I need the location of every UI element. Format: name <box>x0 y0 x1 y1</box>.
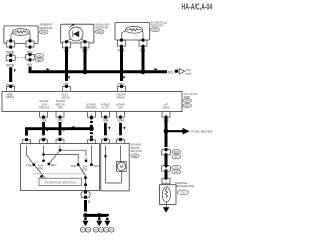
svg-text:M52: M52 <box>97 30 103 34</box>
svg-text:OR/B: OR/B <box>6 63 15 67</box>
svg-text:SENSOR: SENSOR <box>95 26 109 30</box>
svg-text:M33: M33 <box>174 150 180 154</box>
svg-text:M49: M49 <box>185 99 191 103</box>
svg-text:REC: REC <box>93 164 99 168</box>
svg-text:M80: M80 <box>152 28 158 32</box>
svg-text:SENS: SENS <box>117 95 125 99</box>
svg-text:TRANSMITTER: TRANSMITTER <box>175 184 195 188</box>
svg-text:P/B: P/B <box>57 118 63 122</box>
svg-text:M50: M50 <box>185 104 191 108</box>
svg-text:Y/G: Y/G <box>41 118 47 122</box>
svg-text:SENS: SENS <box>162 106 169 110</box>
svg-text:FRE: FRE <box>58 106 63 110</box>
svg-text:FRE: FRE <box>82 167 87 171</box>
svg-text:SENS: SENS <box>6 95 14 99</box>
svg-text:SENSOR: SENSOR <box>39 26 53 30</box>
svg-text:G/B: G/B <box>103 118 109 122</box>
svg-text:B2: B2 <box>38 58 42 62</box>
svg-text:E23: E23 <box>174 170 179 174</box>
svg-text:HA-A/C,A-04: HA-A/C,A-04 <box>182 3 213 12</box>
svg-text:M44: M44 <box>41 30 47 34</box>
svg-text:ACTR: ACTR <box>102 106 109 110</box>
svg-text:M: M <box>120 164 124 169</box>
svg-text:FRE: FRE <box>71 164 77 168</box>
svg-text:Next: Next <box>186 68 192 72</box>
svg-text:M2: M2 <box>38 53 42 57</box>
svg-text:E5: E5 <box>175 155 179 159</box>
svg-text:B/Y: B/Y <box>168 70 174 74</box>
svg-text:M81: M81 <box>132 154 138 158</box>
svg-text:REC: REC <box>51 163 57 167</box>
svg-text:MOTOR: MOTOR <box>131 149 143 153</box>
svg-text:POSITION SWITCH: POSITION SWITCH <box>45 180 76 184</box>
svg-text:S/W: S/W <box>118 106 123 110</box>
svg-text:SENS: SENS <box>62 95 70 99</box>
svg-text:SENSOR: SENSOR <box>151 24 165 28</box>
svg-text:FUEL METER: FUEL METER <box>191 129 213 133</box>
svg-text:FRE/X-B: FRE/X-B <box>39 106 50 110</box>
svg-text:E5: E5 <box>175 165 179 169</box>
svg-text:FRE: FRE <box>26 163 32 167</box>
svg-text:FRE/REC: FRE/REC <box>86 106 98 110</box>
svg-text:G/W: G/W <box>117 118 124 122</box>
svg-text:page: page <box>186 72 192 75</box>
